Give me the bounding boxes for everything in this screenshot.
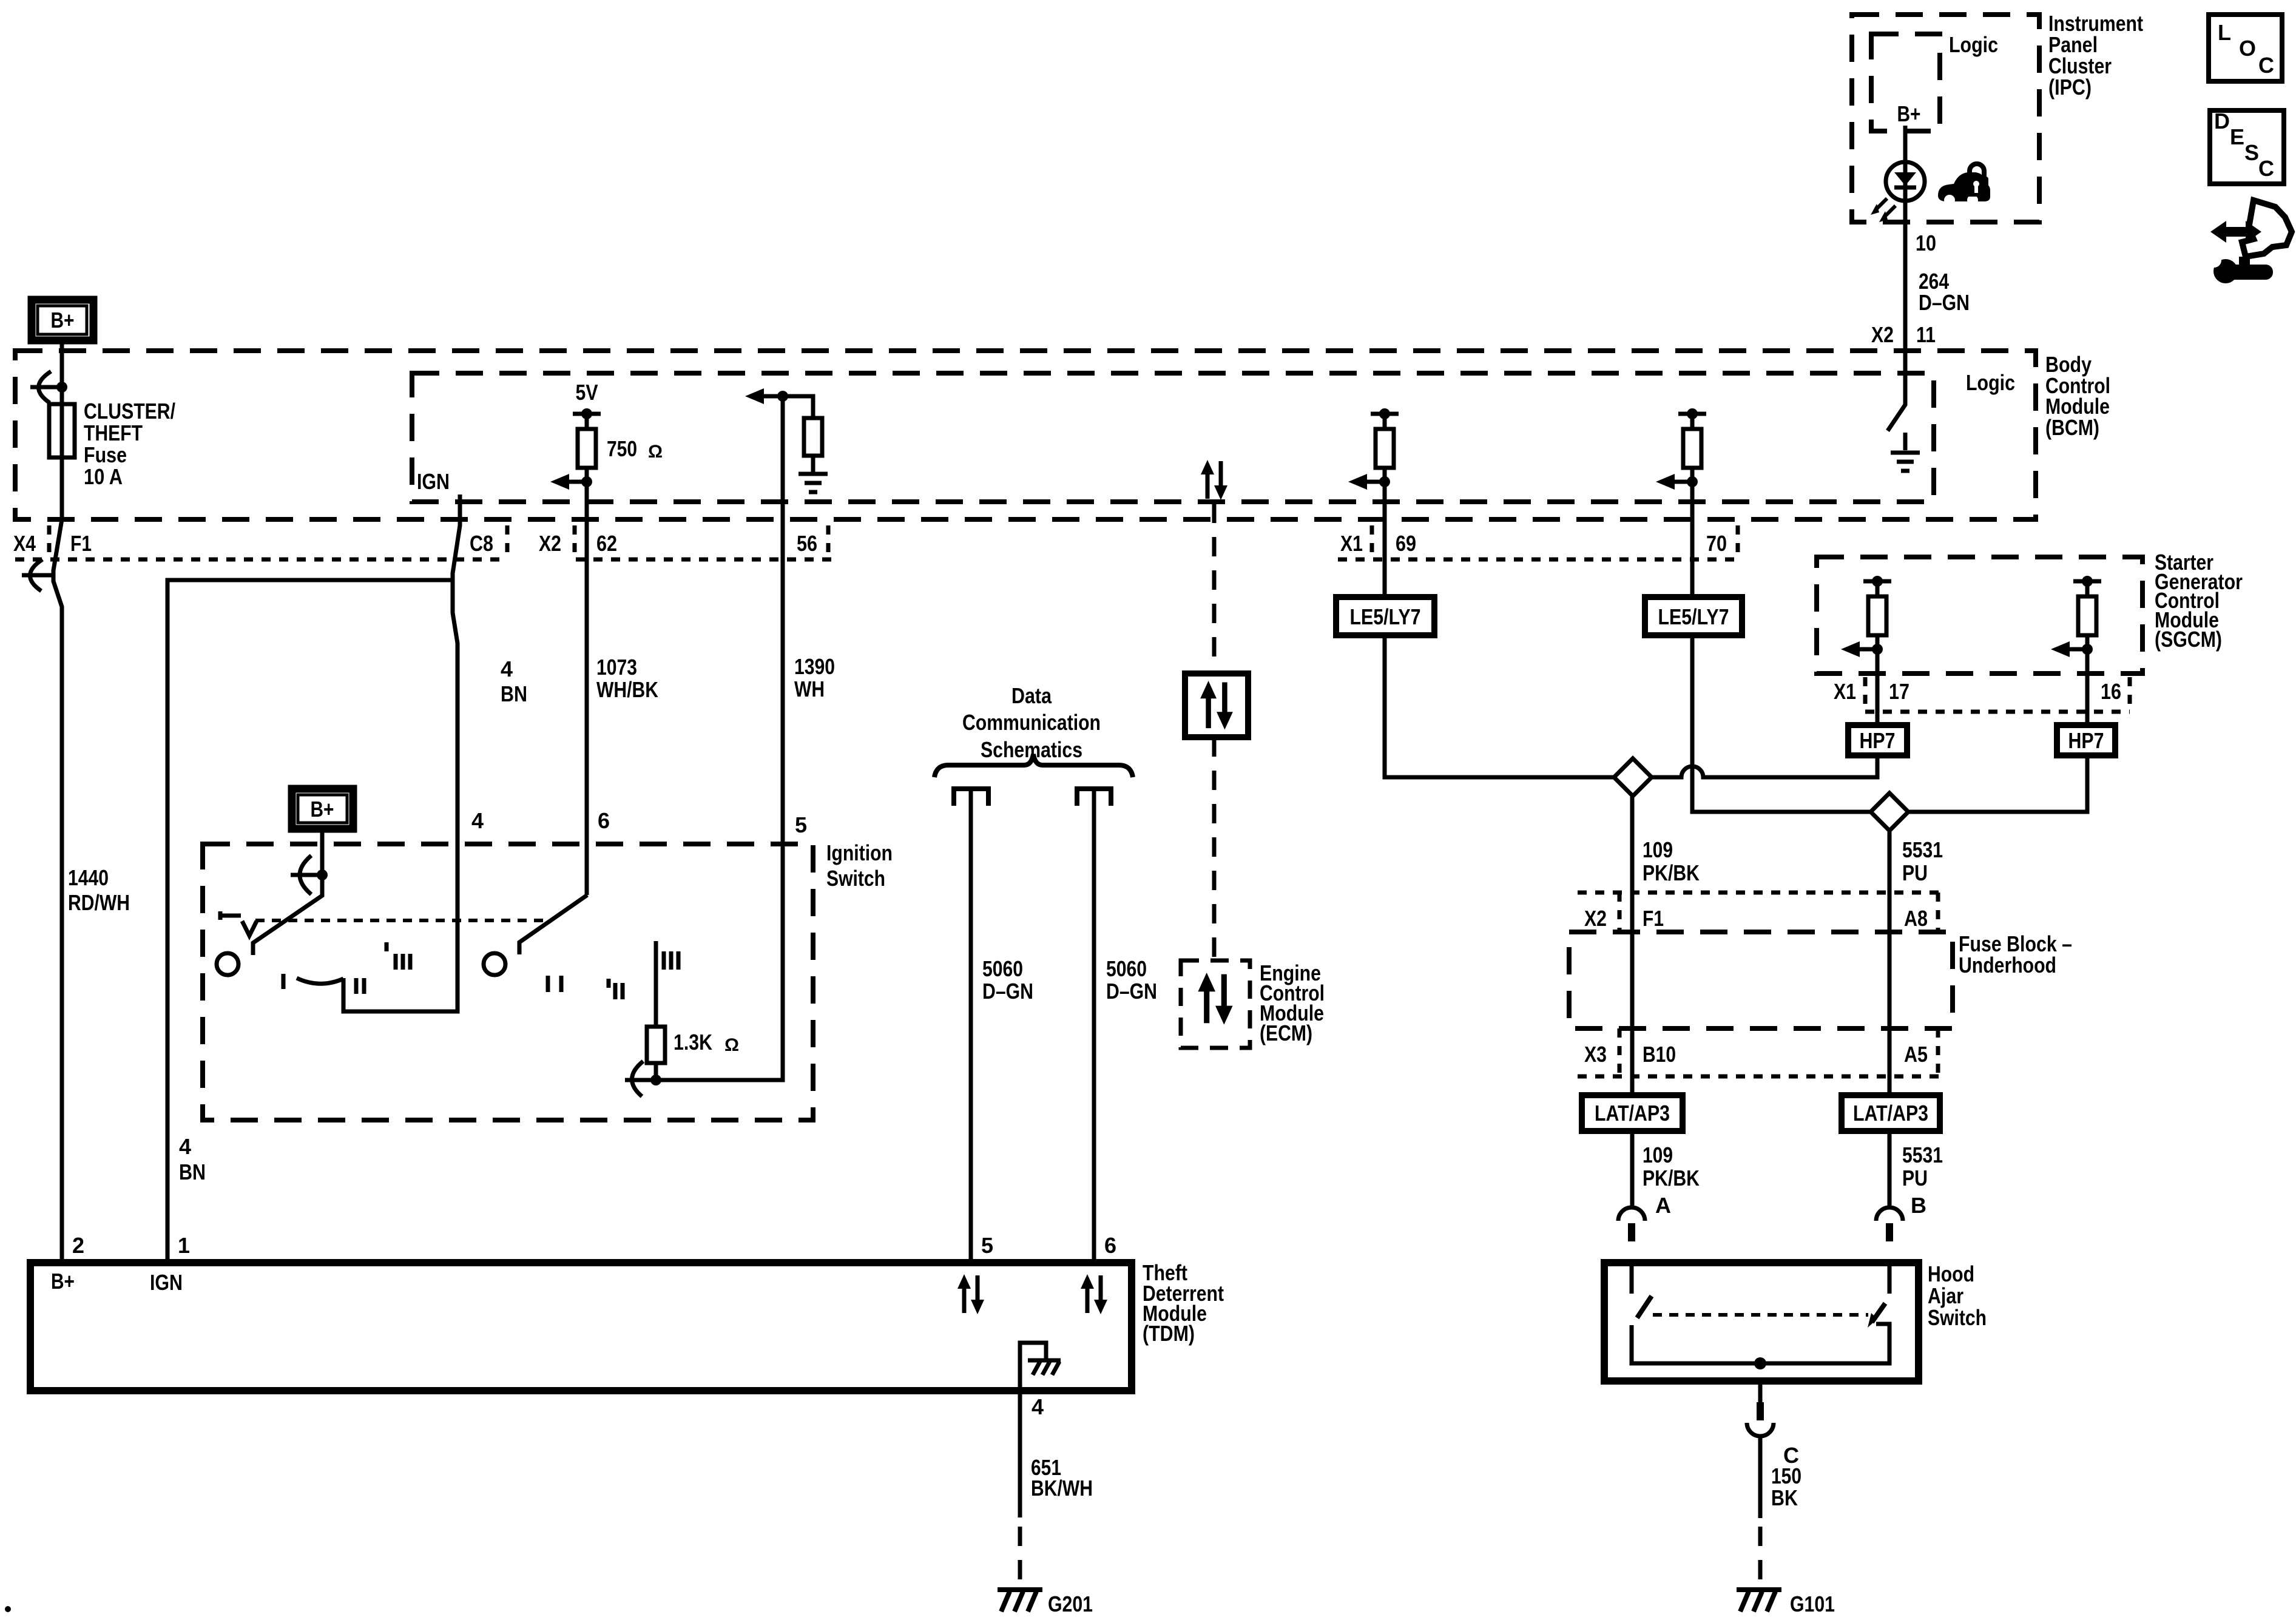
svg-text:6: 6: [1104, 1233, 1116, 1258]
svg-text:X2: X2: [1584, 906, 1607, 931]
svg-text:LAT/AP3: LAT/AP3: [1595, 1101, 1670, 1126]
svg-text:X3: X3: [1584, 1042, 1607, 1067]
svg-text:B+: B+: [1897, 101, 1921, 126]
svg-text:WH: WH: [794, 677, 825, 701]
svg-text:11: 11: [1916, 322, 1936, 347]
svg-text:(TDM): (TDM): [1143, 1321, 1195, 1346]
svg-text:Logic: Logic: [1966, 370, 2015, 395]
svg-text:X2: X2: [539, 531, 561, 556]
svg-text:Hood: Hood: [1928, 1261, 1974, 1286]
svg-text:5V: 5V: [576, 380, 598, 405]
svg-text:5531: 5531: [1902, 1143, 1943, 1167]
svg-text:THEFT: THEFT: [84, 420, 143, 445]
svg-text:5060: 5060: [982, 956, 1023, 981]
svg-text:5531: 5531: [1902, 837, 1943, 862]
svg-text:HP7: HP7: [2068, 728, 2104, 753]
svg-text:1.3K: 1.3K: [674, 1030, 712, 1055]
svg-text:D–GN: D–GN: [1919, 290, 1970, 315]
svg-text:LAT/AP3: LAT/AP3: [1853, 1101, 1928, 1126]
svg-text:IGN: IGN: [150, 1270, 183, 1295]
svg-text:4: 4: [179, 1134, 191, 1159]
svg-text:BN: BN: [501, 681, 527, 706]
svg-text:Switch: Switch: [826, 866, 885, 891]
svg-text:X4: X4: [13, 531, 36, 556]
svg-text:4: 4: [501, 657, 513, 681]
svg-text:4: 4: [1032, 1394, 1044, 1419]
svg-text:B: B: [1911, 1193, 1926, 1218]
svg-text:56: 56: [797, 531, 817, 556]
svg-text:D–GN: D–GN: [1106, 979, 1157, 1004]
svg-text:2: 2: [72, 1233, 84, 1258]
svg-text:(IPC): (IPC): [2048, 75, 2092, 100]
svg-text:C: C: [2258, 156, 2274, 181]
svg-text:PU: PU: [1902, 860, 1928, 885]
svg-text:Communication: Communication: [962, 710, 1101, 735]
svg-text:X1: X1: [1340, 531, 1363, 556]
svg-text:1: 1: [178, 1233, 190, 1258]
svg-text:C: C: [2258, 53, 2274, 78]
svg-text:PK/BK: PK/BK: [1643, 1166, 1700, 1190]
svg-text:B10: B10: [1643, 1042, 1676, 1067]
svg-text:Schematics: Schematics: [981, 737, 1082, 762]
svg-text:69: 69: [1396, 531, 1416, 556]
svg-text:WH/BK: WH/BK: [596, 677, 658, 702]
svg-text:(ECM): (ECM): [1260, 1021, 1312, 1045]
svg-text:(BCM): (BCM): [2045, 415, 2099, 440]
svg-text:1073: 1073: [596, 655, 637, 680]
svg-text:B+: B+: [51, 308, 75, 333]
svg-text:Ω: Ω: [724, 1035, 739, 1055]
svg-text:109: 109: [1643, 1143, 1673, 1167]
svg-text:C8: C8: [470, 531, 493, 556]
svg-text:CLUSTER/: CLUSTER/: [84, 399, 175, 424]
svg-text:F1: F1: [70, 531, 92, 556]
svg-text:16: 16: [2101, 679, 2121, 704]
svg-text:Logic: Logic: [1949, 32, 1998, 57]
svg-text:RD/WH: RD/WH: [68, 890, 130, 915]
svg-text:X1: X1: [1834, 679, 1856, 704]
svg-text:HP7: HP7: [1860, 728, 1896, 753]
svg-text:E: E: [2230, 124, 2244, 149]
svg-text:LE5/LY7: LE5/LY7: [1350, 604, 1421, 629]
svg-text:6: 6: [598, 808, 610, 833]
svg-text:Fuse: Fuse: [84, 442, 127, 467]
svg-text:B+: B+: [51, 1269, 75, 1294]
svg-text:LE5/LY7: LE5/LY7: [1658, 604, 1729, 629]
svg-text:Ajar: Ajar: [1928, 1283, 1963, 1308]
svg-text:150: 150: [1771, 1463, 1801, 1488]
svg-text:B+: B+: [311, 797, 334, 822]
svg-text:750: 750: [607, 436, 637, 461]
svg-text:62: 62: [596, 531, 617, 556]
svg-text:PK/BK: PK/BK: [1643, 860, 1700, 885]
svg-text:IGN: IGN: [417, 469, 450, 494]
svg-text:Underhood: Underhood: [1959, 953, 2056, 977]
svg-text:10: 10: [1916, 231, 1936, 255]
svg-text:O: O: [2239, 36, 2256, 61]
svg-text:X2: X2: [1871, 322, 1894, 347]
svg-text:PU: PU: [1902, 1166, 1928, 1190]
svg-text:5: 5: [981, 1233, 993, 1258]
svg-text:A8: A8: [1904, 906, 1928, 931]
svg-text:Switch: Switch: [1928, 1305, 1987, 1330]
svg-text:70: 70: [1706, 531, 1727, 556]
svg-text:G201: G201: [1048, 1592, 1093, 1616]
svg-text:1390: 1390: [794, 654, 835, 679]
svg-text:BK: BK: [1771, 1485, 1798, 1510]
svg-text:5060: 5060: [1106, 956, 1147, 981]
svg-text:A: A: [1655, 1193, 1671, 1218]
svg-text:4: 4: [471, 808, 484, 833]
svg-text:G101: G101: [1790, 1592, 1835, 1616]
svg-text:17: 17: [1889, 679, 1909, 704]
svg-text:BK/WH: BK/WH: [1031, 1476, 1093, 1501]
svg-text:S: S: [2244, 140, 2259, 165]
svg-text:109: 109: [1643, 837, 1673, 862]
svg-text:10 A: 10 A: [84, 464, 123, 489]
svg-text:1440: 1440: [68, 865, 109, 890]
svg-text:Ignition: Ignition: [826, 840, 893, 865]
svg-text:A5: A5: [1904, 1042, 1928, 1067]
svg-text:BN: BN: [179, 1160, 206, 1184]
svg-text:Ω: Ω: [648, 442, 663, 462]
svg-text:D–GN: D–GN: [982, 979, 1033, 1004]
svg-text:Data: Data: [1011, 683, 1052, 708]
svg-text:5: 5: [795, 812, 807, 837]
svg-text:(SGCM): (SGCM): [2155, 627, 2222, 652]
svg-text:F1: F1: [1643, 906, 1664, 931]
svg-text:D: D: [2214, 109, 2230, 133]
svg-text:L: L: [2218, 20, 2231, 45]
